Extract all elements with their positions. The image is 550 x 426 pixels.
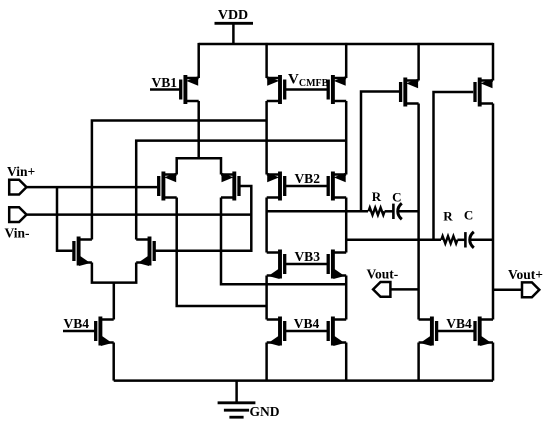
- wire right branch VB3 source to VB4 drain: [345, 276, 348, 320]
- port Vin+: [9, 180, 26, 195]
- svg-text:VB4: VB4: [64, 316, 90, 331]
- resistor R1 (left compensation): [369, 208, 385, 215]
- port Vout-: [373, 282, 390, 297]
- wire Vout+ port wire: [493, 289, 522, 292]
- transistor M10 NMOS VB3 cascode left: [267, 250, 285, 280]
- transistor M12 NMOS VB4 middle left: [267, 317, 285, 347]
- svg-text:GND: GND: [250, 404, 280, 419]
- wire C1 to Vout- branch: [398, 210, 418, 213]
- transistor M4 NMOS input left (Vin+): [74, 237, 92, 267]
- transistor M17 NMOS VB4 output left: [419, 317, 437, 347]
- wire NMOS pair tail: [113, 283, 116, 320]
- transistor M5 NMOS input right (Vin-): [136, 237, 154, 267]
- wire VDD stem: [232, 23, 235, 44]
- transistor M15 PMOS output left (Vout-): [401, 78, 419, 107]
- wire VB1 gate stub: [150, 88, 181, 91]
- svg-text:VB1: VB1: [152, 75, 178, 90]
- transistor M18 NMOS VB4 output right: [475, 317, 493, 347]
- wire VDD rail: [199, 43, 493, 46]
- wire PMOS out-left source to rail: [417, 43, 420, 81]
- wire VB4 out-left source to ground: [417, 343, 420, 381]
- svg-text:R: R: [443, 209, 453, 224]
- wire left branch VB3 source to VB4 drain: [265, 276, 268, 320]
- wire VB4 middle gate wire: [285, 330, 329, 333]
- wire R2 to C2: [457, 239, 465, 242]
- transistor M3 PMOS input right (Vin-): [221, 172, 239, 201]
- wire right branch VCMFB drain to VB2 source: [345, 101, 348, 175]
- wire VB3 gate wire: [285, 263, 329, 266]
- transistor M7 PMOS V_CMFB right load: [328, 75, 346, 104]
- wire PMOS out-right source to rail: [492, 43, 495, 81]
- resistor R2 (right compensation): [441, 236, 457, 243]
- svg-text:C: C: [392, 190, 401, 205]
- wire VCMFB-right source to rail: [345, 43, 348, 78]
- wire Vin- to PMOS-right and NMOS-right gates: [155, 186, 251, 251]
- wire Vout+ branch vertical: [492, 104, 495, 320]
- wire GND rail: [114, 379, 493, 382]
- svg-text:Vin+: Vin+: [7, 164, 35, 179]
- VDD supply bar: [215, 22, 254, 25]
- wire R1 to C1: [385, 210, 394, 213]
- wire VB4 output gate wire: [437, 330, 475, 333]
- wire node out1+ to RC2: [346, 239, 441, 242]
- wire VB4 single gate stub: [63, 330, 96, 333]
- wire NMOS-right drain fold-up: [136, 141, 346, 240]
- wire right branch VB4 source to ground: [345, 343, 348, 381]
- wire PMOS-right drain fold-down: [221, 198, 346, 285]
- transistor M16 PMOS output right (Vout+): [475, 78, 493, 107]
- wire NMOS pair source bracket: [92, 263, 136, 283]
- wire Vout- port wire: [390, 288, 418, 291]
- transistor M1 PMOS VB1 tail current source: [181, 75, 199, 104]
- wire PMOS output right gate: [434, 92, 474, 240]
- wire VCMFB-left source to rail: [265, 43, 268, 78]
- svg-text:C: C: [464, 208, 473, 223]
- wire Vin- line: [26, 213, 251, 216]
- wire VB4 out-right source to ground: [492, 343, 495, 381]
- transistor M11 NMOS VB3 cascode right: [328, 250, 346, 280]
- svg-text:VB3: VB3: [294, 249, 320, 264]
- port Vout+: [522, 282, 539, 297]
- port Vin-: [9, 207, 26, 222]
- svg-text:Vout+: Vout+: [508, 267, 543, 282]
- wire PMOS pair source bracket: [177, 158, 221, 174]
- wire VB2 gate wire: [285, 185, 329, 188]
- svg-text:R: R: [372, 189, 382, 204]
- wire left branch VB4 source to ground: [265, 343, 268, 381]
- wire C2 to Vout+ branch: [470, 239, 493, 242]
- svg-text:VB2: VB2: [294, 171, 320, 186]
- transistor M9 PMOS VB2 cascode right: [328, 172, 346, 201]
- wire Vout- branch vertical: [417, 104, 420, 320]
- wire left branch VB2 drain to VB3 drain: [265, 198, 268, 253]
- transistor M13 NMOS VB4 middle right: [328, 317, 346, 347]
- transistor M8 PMOS VB2 cascode left: [267, 172, 285, 201]
- wire VCMFB gate wire: [285, 88, 329, 91]
- transistor M6 PMOS V_CMFB left load: [267, 75, 285, 104]
- svg-text:Vin-: Vin-: [5, 226, 30, 241]
- wire VB4 single source to ground: [112, 343, 115, 381]
- wire PMOS-left drain fold-down: [177, 198, 267, 307]
- wire right branch VB2 drain to VB3 drain: [345, 198, 348, 253]
- wire Vin+ to NMOS-left gate: [57, 187, 72, 251]
- wire VB1 drain to input pair tail: [197, 101, 200, 158]
- svg-text:Vout-: Vout-: [367, 267, 399, 282]
- wire Vin+ line: [26, 186, 157, 189]
- capacitor C1 (left compensation): [393, 203, 401, 219]
- svg-text:VDD: VDD: [218, 8, 248, 23]
- ground symbol: [218, 381, 256, 418]
- transistor M14 NMOS VB4 input tail sink: [96, 317, 114, 347]
- transistor M2 PMOS input left (Vin+): [159, 172, 177, 201]
- capacitor C2 (right compensation): [465, 232, 473, 248]
- wire PMOS output left gate: [361, 92, 400, 212]
- wire node out1- to RC1: [267, 210, 368, 213]
- wire VB1 source to VDD rail: [197, 43, 200, 78]
- wire NMOS-left drain fold-up: [92, 121, 267, 240]
- wire left branch VCMFB drain to VB2 source: [265, 101, 268, 175]
- svg-text:VB4: VB4: [294, 316, 320, 331]
- svg-text:VB4: VB4: [446, 316, 472, 331]
